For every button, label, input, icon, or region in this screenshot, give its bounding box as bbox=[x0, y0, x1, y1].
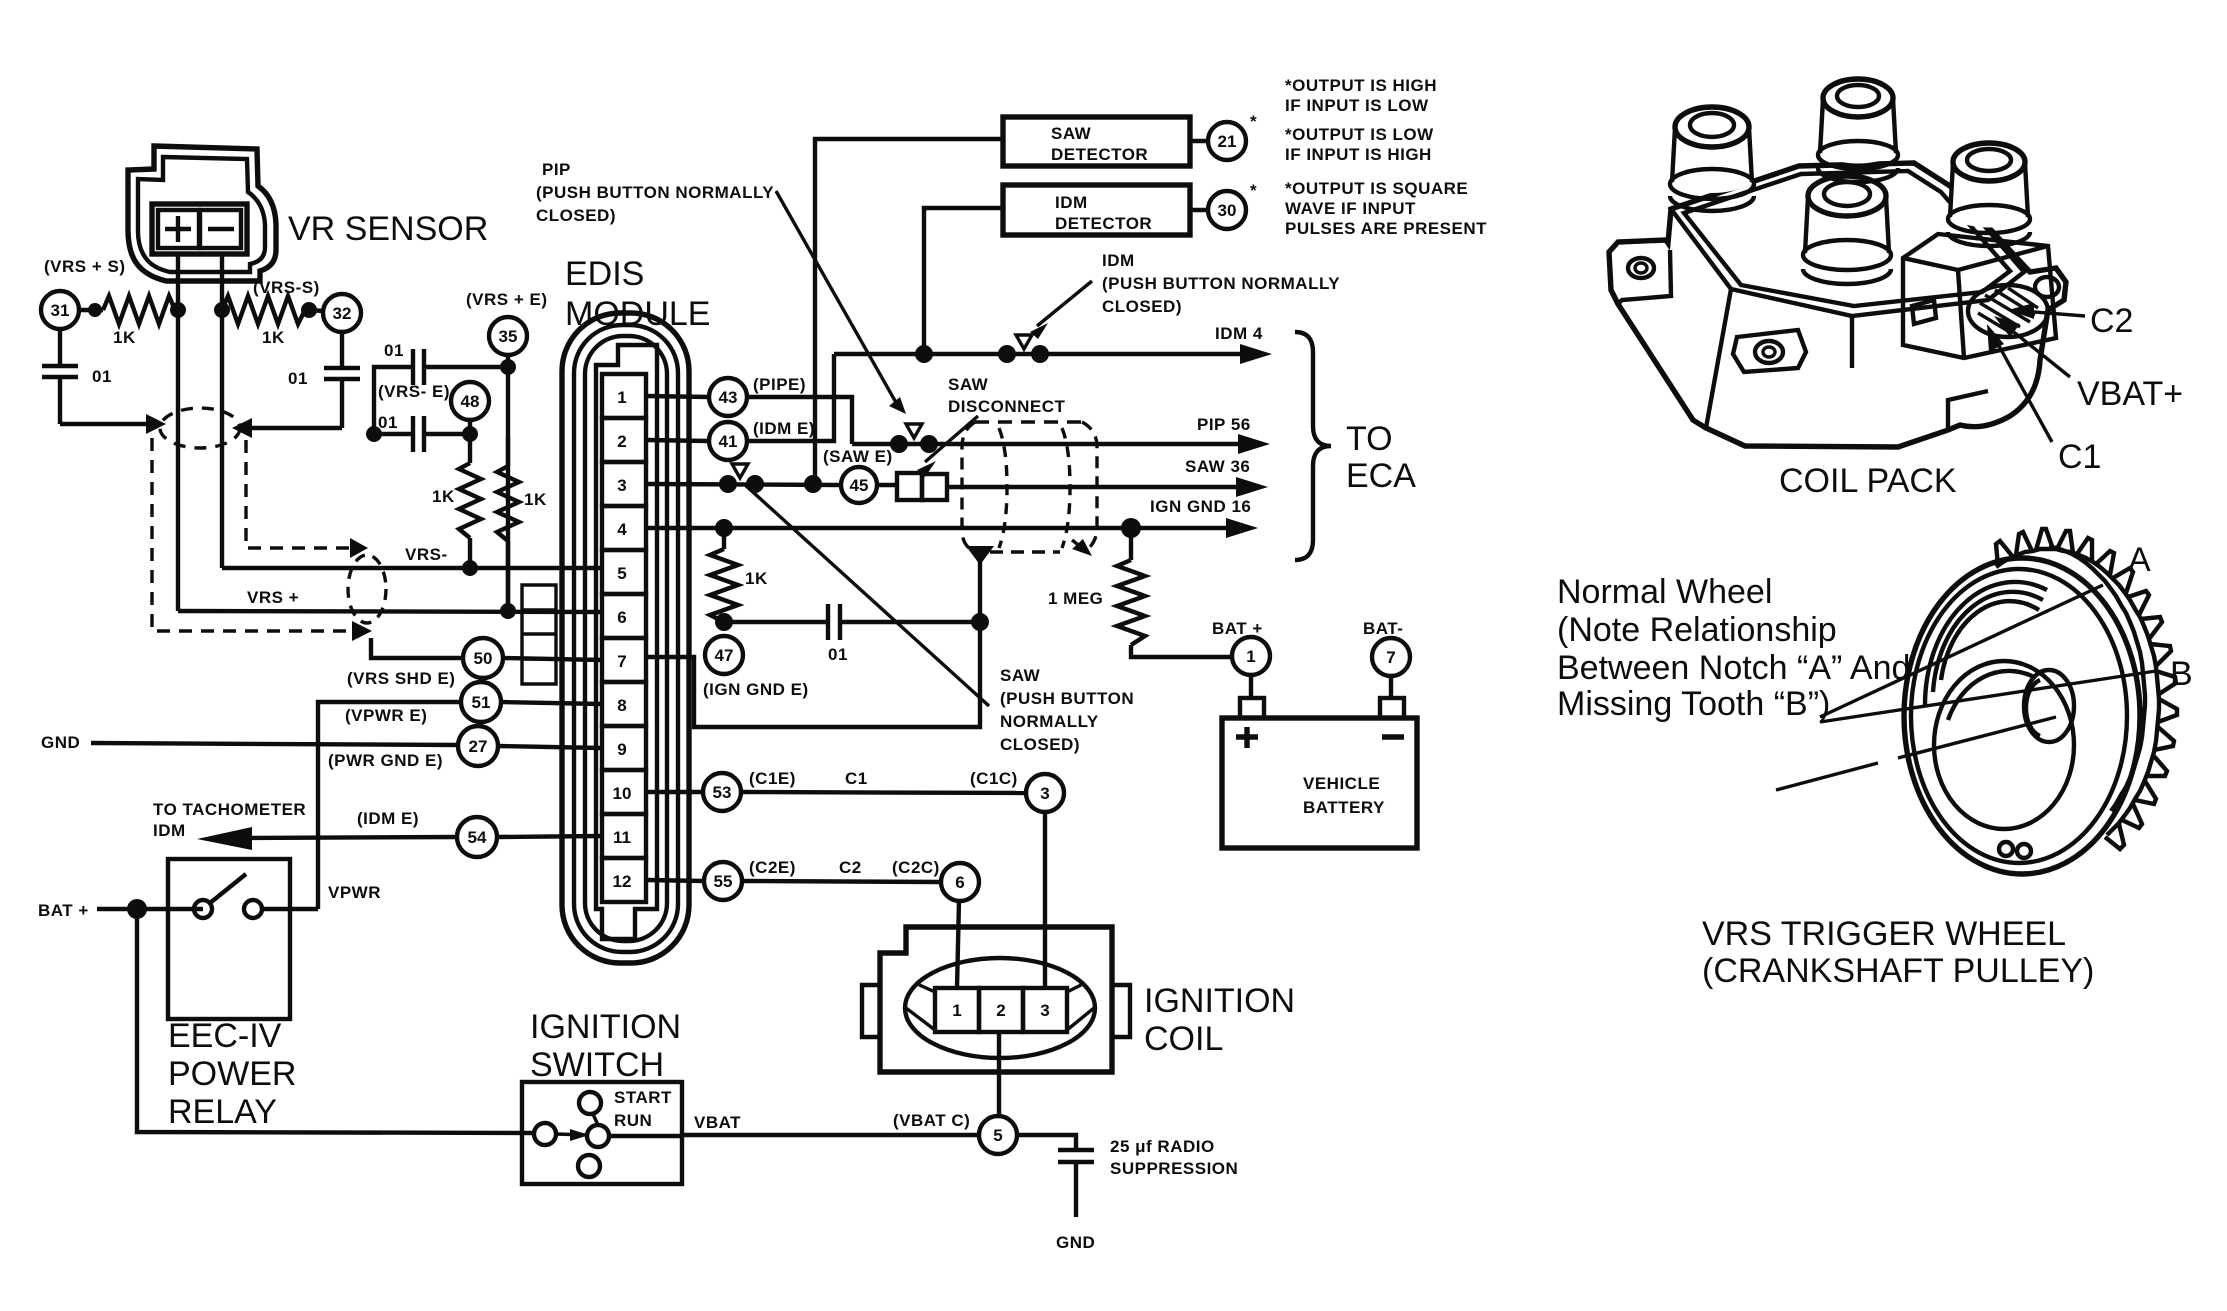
svg-text:1: 1 bbox=[1246, 647, 1255, 666]
svg-text:PULSES ARE PRESENT: PULSES ARE PRESENT bbox=[1285, 219, 1487, 238]
switch contact START bbox=[579, 1092, 601, 1114]
svg-text:1 MEG: 1 MEG bbox=[1048, 589, 1103, 608]
pushbutton IDM symbol bbox=[1016, 335, 1032, 349]
svg-text:(IGN GND E): (IGN GND E) bbox=[703, 680, 809, 699]
junction dots pin3 bbox=[719, 475, 737, 493]
junction dot VRS+ lead bbox=[170, 302, 186, 318]
svg-text:DISCONNECT: DISCONNECT bbox=[948, 397, 1066, 416]
wire node6 down to coil 1 bbox=[957, 901, 959, 988]
wire pin2 to node 41 bbox=[646, 440, 709, 441]
svg-text:32: 32 bbox=[333, 304, 352, 323]
svg-text:SAW: SAW bbox=[1051, 124, 1092, 143]
svg-text:MODULE: MODULE bbox=[565, 295, 710, 333]
svg-text:1K: 1K bbox=[262, 328, 285, 347]
wire from C1 to shield arrow bbox=[60, 422, 146, 426]
pin 5 bbox=[602, 550, 646, 594]
svg-text:CLOSED): CLOSED) bbox=[1102, 297, 1182, 316]
junction dot BAT+ bbox=[127, 899, 147, 919]
IDM detector box bbox=[1003, 185, 1190, 235]
svg-text:27: 27 bbox=[469, 737, 488, 756]
wire tachometer arrow bbox=[230, 837, 457, 838]
svg-text:A: A bbox=[2128, 541, 2151, 579]
wire node51 to pin8 bbox=[501, 702, 602, 704]
base front edges bbox=[1706, 289, 1988, 430]
shield drain arrow into cable bbox=[966, 546, 994, 565]
twisted pair dashed ellipse at sensor leads bbox=[160, 408, 240, 448]
tower 4 top bbox=[1953, 143, 2025, 181]
junction dot node47 bbox=[715, 613, 733, 631]
svg-text:25 μf RADIO: 25 μf RADIO bbox=[1110, 1137, 1215, 1156]
svg-text:TO TACHOMETER: TO TACHOMETER bbox=[153, 800, 306, 819]
svg-text:IF INPUT IS LOW: IF INPUT IS LOW bbox=[1285, 96, 1429, 115]
shield arrow right bbox=[232, 418, 252, 438]
resistor R1 1K bbox=[103, 296, 178, 324]
svg-text:(VRS- E): (VRS- E) bbox=[378, 382, 450, 401]
svg-text:1K: 1K bbox=[432, 487, 455, 506]
svg-text:C1: C1 bbox=[2058, 438, 2101, 476]
resistor R3 1K vertical bbox=[468, 434, 472, 463]
svg-text:VRS-: VRS- bbox=[405, 545, 448, 564]
dashed shield drain line pair2 bbox=[246, 440, 352, 548]
node 41 bbox=[709, 422, 747, 460]
coil pack base casting silhouette bbox=[1609, 163, 2066, 447]
svg-text:(PUSH BUTTON NORMALLY: (PUSH BUTTON NORMALLY bbox=[1102, 274, 1340, 293]
coil terminal box 1 bbox=[935, 988, 979, 1032]
top plate outline bbox=[1671, 163, 2024, 316]
junction dot 1MEG bbox=[1121, 518, 1141, 538]
svg-text:BATTERY: BATTERY bbox=[1303, 798, 1385, 817]
svg-text:(CRANKSHAFT PULLEY): (CRANKSHAFT PULLEY) bbox=[1702, 952, 2094, 990]
svg-text:5: 5 bbox=[993, 1126, 1002, 1145]
wire VPWR vertical to node51 bbox=[318, 702, 461, 909]
svg-text:VRS TRIGGER WHEEL: VRS TRIGGER WHEEL bbox=[1702, 915, 2066, 953]
svg-text:IDM 4: IDM 4 bbox=[1215, 324, 1263, 343]
node 53 bbox=[703, 773, 741, 811]
svg-text:10: 10 bbox=[613, 784, 632, 803]
svg-text:55: 55 bbox=[714, 872, 733, 891]
node 31 bbox=[41, 291, 79, 329]
svg-text:(PUSH BUTTON: (PUSH BUTTON bbox=[1000, 689, 1134, 708]
leader IDM note to pushbutton bbox=[1037, 281, 1092, 326]
svg-text:WAVE IF INPUT: WAVE IF INPUT bbox=[1285, 199, 1416, 218]
svg-text:GND: GND bbox=[41, 733, 80, 752]
wire pin1 PIPE to node 43 bbox=[646, 396, 709, 397]
svg-text:C2: C2 bbox=[839, 858, 862, 877]
shield arrow left bbox=[146, 414, 166, 434]
leader PIP note to PIP pushbutton bbox=[776, 191, 898, 406]
svg-text:2: 2 bbox=[996, 1001, 1005, 1020]
hub inner bbox=[2026, 680, 2040, 736]
node 6 bbox=[941, 863, 979, 901]
wire pin12 to node55 bbox=[646, 880, 704, 881]
wire node54 to pin11 bbox=[497, 836, 602, 837]
pin 9 bbox=[602, 726, 646, 770]
coil terminal box 3 bbox=[1023, 988, 1067, 1032]
shield drain arrow pair1 bbox=[352, 621, 372, 641]
node 3 bbox=[1026, 774, 1064, 812]
svg-text:(VRS + S): (VRS + S) bbox=[44, 257, 126, 276]
svg-text:3: 3 bbox=[1040, 784, 1049, 803]
svg-text:*OUTPUT IS SQUARE: *OUTPUT IS SQUARE bbox=[1285, 179, 1468, 198]
relay contact right bbox=[244, 900, 262, 918]
wire node55 to node6 bbox=[742, 881, 941, 882]
svg-text:47: 47 bbox=[715, 646, 734, 665]
brace to ECA bbox=[1295, 332, 1331, 560]
svg-text:*: * bbox=[1250, 112, 1257, 131]
junction dot cap to drain bbox=[971, 613, 989, 631]
wire relay to VPWR bbox=[262, 907, 318, 911]
leader notch A bbox=[1820, 585, 2103, 717]
wire BAT+ to relay bbox=[97, 907, 203, 911]
switch contact left bbox=[534, 1123, 556, 1145]
node 51 bbox=[461, 682, 501, 722]
pushbutton PIP symbol bbox=[906, 424, 922, 438]
pin 4 bbox=[602, 506, 646, 550]
svg-text:VPWR: VPWR bbox=[328, 883, 381, 902]
wire node50 to pin7 bbox=[503, 658, 602, 660]
tower 2 top bbox=[1823, 79, 1893, 117]
svg-text:BAT +: BAT + bbox=[38, 901, 89, 920]
svg-text:(VRS-S): (VRS-S) bbox=[253, 278, 320, 297]
svg-text:7: 7 bbox=[1386, 648, 1395, 667]
wire IDM detector to IDM4 line bbox=[924, 208, 1003, 354]
dashed shield drain line pair1 bbox=[152, 438, 355, 631]
svg-text:ECA: ECA bbox=[1346, 457, 1416, 495]
VR sensor - terminal bbox=[200, 210, 241, 248]
tower 4 body bbox=[1949, 163, 2029, 228]
wire VRS- lead down from sensor bbox=[220, 254, 224, 568]
node 21 bbox=[1208, 122, 1246, 160]
svg-text:01: 01 bbox=[828, 645, 848, 664]
svg-text:VEHICLE: VEHICLE bbox=[1303, 774, 1380, 793]
svg-text:(C1C): (C1C) bbox=[970, 769, 1018, 788]
pin 7 bbox=[602, 638, 646, 682]
wire node31 to resistor bbox=[79, 308, 103, 312]
EDIS module pin cavity boundary bbox=[596, 345, 657, 939]
svg-text:1: 1 bbox=[952, 1001, 961, 1020]
leader SAW DISCONNECT bbox=[925, 416, 978, 462]
relay blade bbox=[210, 874, 246, 903]
svg-text:*: * bbox=[1250, 181, 1257, 200]
junction dot C4 left bbox=[366, 426, 382, 442]
svg-text:(VPWR E): (VPWR E) bbox=[345, 706, 427, 725]
svg-text:RELAY: RELAY bbox=[168, 1093, 277, 1131]
wire pin3 SAW line bbox=[646, 484, 840, 485]
relay contact left bbox=[194, 900, 212, 918]
node 48 bbox=[451, 382, 489, 420]
node 5 bbox=[979, 1116, 1017, 1154]
wire to node 32 bbox=[309, 310, 324, 311]
pulley disc outer rim bbox=[1904, 558, 2140, 874]
pin 11 bbox=[602, 814, 646, 858]
resistor R2 1K bbox=[222, 296, 309, 324]
wire VRS SHD E from shield to node 50 bbox=[371, 638, 464, 658]
junction dot node35 branch bbox=[500, 359, 516, 375]
wire SAW detector to node 21 bbox=[1190, 139, 1208, 143]
svg-text:IDM: IDM bbox=[1102, 251, 1135, 270]
coil ellipse spokes bbox=[906, 983, 1094, 1030]
VR sensor connector inner outline bbox=[138, 157, 265, 272]
svg-text:SAW: SAW bbox=[948, 375, 989, 394]
battery plus mark bbox=[1236, 727, 1258, 748]
wire VRS- to module pin5 bbox=[222, 566, 602, 570]
battery terminal posts bbox=[1251, 675, 1391, 698]
svg-text:1K: 1K bbox=[524, 490, 547, 509]
wire IDM E to IDM4 line bbox=[747, 354, 834, 441]
wire VRS+ lead down from sensor bbox=[176, 254, 180, 611]
svg-text:IGN GND 16: IGN GND 16 bbox=[1150, 497, 1251, 516]
switch blade lines bbox=[556, 1112, 598, 1135]
pulley disc inner rim line bbox=[1911, 569, 2127, 863]
wire VRS+ to module pin6 bbox=[178, 611, 602, 612]
svg-text:IDM: IDM bbox=[153, 821, 186, 840]
balance holes oo bbox=[1999, 842, 2013, 856]
junction dot pin4 bbox=[715, 519, 733, 537]
wire node3 down to coil 3 bbox=[1043, 812, 1047, 988]
svg-text:(Note Relationship: (Note Relationship bbox=[1557, 611, 1837, 649]
VR sensor + terminal bbox=[158, 210, 199, 248]
svg-text:IGNITION: IGNITION bbox=[530, 1008, 681, 1046]
svg-text:4: 4 bbox=[617, 520, 627, 539]
trigger wheel teeth ring bbox=[1996, 529, 2177, 849]
node 35 bbox=[489, 317, 527, 355]
svg-text:51: 51 bbox=[472, 693, 491, 712]
svg-text:GND: GND bbox=[1056, 1233, 1095, 1252]
svg-text:C2: C2 bbox=[2090, 302, 2133, 340]
base left ear edge bbox=[1618, 250, 1671, 304]
twisted pair dashed ellipse at VRS lines bbox=[348, 555, 386, 623]
svg-text:45: 45 bbox=[850, 476, 869, 495]
svg-text:SUPPRESSION: SUPPRESSION bbox=[1110, 1159, 1238, 1178]
svg-text:*OUTPUT IS LOW: *OUTPUT IS LOW bbox=[1285, 125, 1434, 144]
svg-text:EDIS: EDIS bbox=[565, 255, 644, 293]
front ear bbox=[1733, 330, 1806, 372]
wire node53 to node3 bbox=[741, 792, 1026, 793]
svg-text:7: 7 bbox=[617, 652, 626, 671]
svg-text:3: 3 bbox=[617, 476, 626, 495]
node 30 bbox=[1208, 191, 1246, 229]
top plate inner line bbox=[1684, 171, 2010, 306]
svg-text:Missing Tooth “B”): Missing Tooth “B”) bbox=[1557, 685, 1830, 723]
pulley front groove arcs bbox=[1925, 582, 2047, 705]
tower 1 body bbox=[1671, 128, 1753, 193]
svg-text:(C1E): (C1E) bbox=[749, 769, 796, 788]
svg-text:43: 43 bbox=[719, 388, 738, 407]
svg-text:1K: 1K bbox=[113, 328, 136, 347]
svg-text:01: 01 bbox=[288, 369, 308, 388]
connector opening bbox=[1968, 285, 2048, 337]
wire PIPE to PIP56 line bbox=[747, 397, 852, 444]
SAW disconnect connector bbox=[897, 473, 922, 500]
svg-text:DETECTOR: DETECTOR bbox=[1051, 145, 1148, 164]
svg-text:01: 01 bbox=[384, 341, 404, 360]
svg-text:53: 53 bbox=[713, 783, 732, 802]
base left ear hole bbox=[1628, 258, 1654, 278]
wire pin10 to node53 bbox=[646, 790, 703, 794]
capacitor C2 .01 under node 32 bbox=[324, 332, 360, 428]
BAT+ node 1 bbox=[1232, 637, 1270, 675]
EDIS module inner outline bbox=[585, 336, 667, 941]
svg-text:IDM: IDM bbox=[1055, 193, 1088, 212]
junction dot VRS+ with R4 bbox=[500, 603, 516, 619]
cable shield dashed oval around ECA lines bbox=[975, 420, 1082, 423]
wire from C2 to shield arrow bbox=[252, 426, 342, 430]
svg-text:6: 6 bbox=[617, 608, 626, 627]
svg-text:SAW: SAW bbox=[1000, 666, 1041, 685]
BAT- node 7 bbox=[1372, 638, 1410, 676]
shield drain arrow pair2 bbox=[350, 538, 368, 558]
svg-text:(VRS + E): (VRS + E) bbox=[466, 290, 548, 309]
svg-text:COIL PACK: COIL PACK bbox=[1779, 462, 1957, 500]
svg-text:(C2E): (C2E) bbox=[749, 858, 796, 877]
node 45 bbox=[841, 467, 877, 503]
svg-text:C1: C1 bbox=[845, 769, 868, 788]
svg-text:VR SENSOR: VR SENSOR bbox=[288, 210, 488, 248]
node 32 bbox=[323, 294, 361, 332]
connector slot bbox=[1912, 300, 1936, 324]
svg-text:01: 01 bbox=[92, 367, 112, 386]
wire node5 to radio cap bbox=[1017, 1135, 1094, 1217]
right ear hole bbox=[2035, 277, 2059, 297]
svg-text:CLOSED): CLOSED) bbox=[1000, 735, 1080, 754]
wire PIP 56 line to ECA bbox=[852, 442, 1256, 446]
wire pin4 IGN GND line to ECA bbox=[646, 526, 1244, 530]
node 54 bbox=[457, 817, 497, 857]
svg-text:PIP 56: PIP 56 bbox=[1197, 415, 1251, 434]
leader SAW note from pin3 bbox=[744, 484, 989, 706]
junction dot C4 right bbox=[462, 426, 478, 442]
dashed arrow at shield oval bbox=[1072, 540, 1086, 551]
pin 2 bbox=[602, 418, 646, 462]
ignition coil right tab bbox=[1112, 985, 1130, 1037]
svg-text:(C2C): (C2C) bbox=[892, 858, 940, 877]
leader tooth B bbox=[1820, 671, 2156, 722]
node 27 bbox=[458, 726, 498, 766]
VR sensor connector body bbox=[128, 146, 276, 281]
svg-text:1: 1 bbox=[617, 388, 626, 407]
EDIS module middle outline bbox=[574, 325, 678, 952]
wire BAT+ down to VBAT line bbox=[137, 909, 536, 1133]
svg-text:B: B bbox=[2170, 655, 2193, 693]
svg-text:31: 31 bbox=[51, 301, 70, 320]
connector block bbox=[1903, 234, 2056, 358]
pushbutton SAW symbol at pin3 bbox=[732, 464, 748, 478]
trigger wheel tooth root arc bbox=[1996, 549, 2159, 835]
svg-text:(IDM E): (IDM E) bbox=[753, 419, 815, 438]
junction dot at resistor R2 right bbox=[301, 302, 317, 318]
ignition coil left tab bbox=[862, 985, 880, 1037]
svg-text:Between Notch “A” And: Between Notch “A” And bbox=[1557, 649, 1910, 687]
VR sensor terminal housing bbox=[152, 204, 247, 254]
svg-text:NORMALLY: NORMALLY bbox=[1000, 712, 1099, 731]
capacitor C3 .01 horizontal top bbox=[374, 349, 508, 434]
wire VBAT from switch to coil bbox=[609, 1135, 979, 1136]
svg-text:BAT-: BAT- bbox=[1363, 619, 1403, 638]
pin 3 bbox=[602, 462, 646, 506]
svg-text:COIL: COIL bbox=[1144, 1020, 1223, 1058]
svg-text:POWER: POWER bbox=[168, 1055, 296, 1093]
trigger wheel ring back edge bbox=[2049, 547, 2145, 811]
tower 3 top bbox=[1808, 176, 1886, 216]
svg-text:35: 35 bbox=[499, 327, 518, 346]
wire SAW 36 line to ECA bbox=[947, 485, 1254, 489]
svg-text:30: 30 bbox=[1218, 201, 1237, 220]
svg-text:21: 21 bbox=[1218, 132, 1237, 151]
wire node45 to disconnect bbox=[877, 483, 897, 487]
svg-text:54: 54 bbox=[468, 828, 487, 847]
svg-text:VBAT+: VBAT+ bbox=[2077, 375, 2183, 413]
tower 1 top bbox=[1675, 107, 1749, 147]
junction dots PIP pushbutton bbox=[890, 435, 908, 453]
switch contact RUN bbox=[587, 1125, 609, 1147]
tower 3 body bbox=[1804, 197, 1890, 264]
wire IDM 4 line to ECA bbox=[834, 352, 1258, 356]
svg-text:12: 12 bbox=[613, 872, 632, 891]
svg-text:EEC-IV: EEC-IV bbox=[168, 1017, 282, 1055]
pin 1 bbox=[602, 374, 646, 418]
svg-text:SAW 36: SAW 36 bbox=[1185, 457, 1250, 476]
node 43 bbox=[709, 378, 747, 416]
svg-text:48: 48 bbox=[461, 392, 480, 411]
pin 6 bbox=[602, 594, 646, 638]
node 50 bbox=[463, 638, 503, 678]
wire pin7 shield drain bbox=[646, 562, 980, 727]
svg-text:Normal Wheel: Normal Wheel bbox=[1557, 573, 1772, 611]
svg-text:(VRS SHD E): (VRS SHD E) bbox=[347, 669, 455, 688]
junction dot IDM detector drop bbox=[915, 345, 933, 363]
svg-text:(PWR GND E): (PWR GND E) bbox=[328, 751, 443, 770]
switch contact OFF bbox=[578, 1155, 600, 1177]
battery minus mark bbox=[1382, 734, 1404, 739]
junction dot SAW detector drop bbox=[804, 475, 822, 493]
svg-text:CLOSED): CLOSED) bbox=[536, 206, 616, 225]
centre line through hub bbox=[1776, 717, 2056, 790]
junction dot VRS- with R3 bbox=[462, 560, 478, 576]
svg-text:(SAW E): (SAW E) bbox=[823, 447, 893, 466]
svg-text:1K: 1K bbox=[745, 569, 768, 588]
pin 10 bbox=[602, 770, 646, 814]
svg-text:BAT +: BAT + bbox=[1212, 619, 1263, 638]
wire SAW detector to pin3 line bbox=[815, 139, 1003, 484]
svg-text:(VBAT C): (VBAT C) bbox=[893, 1111, 970, 1130]
vehicle battery box bbox=[1222, 718, 1417, 848]
hub ellipse bbox=[2024, 670, 2074, 742]
module left bracket comb bbox=[522, 585, 556, 684]
svg-text:VRS +: VRS + bbox=[247, 588, 299, 607]
capacitor C1 .01 under node 31 bbox=[42, 329, 78, 424]
wire node48 to C4 bbox=[468, 420, 472, 434]
svg-text:3: 3 bbox=[1040, 1001, 1049, 1020]
wire node5 up to coil pin2 bbox=[997, 1032, 1001, 1116]
svg-text:50: 50 bbox=[474, 649, 493, 668]
svg-text:(IDM E): (IDM E) bbox=[357, 809, 419, 828]
EEC-IV power relay box bbox=[168, 859, 290, 1019]
ignition coil ellipse bbox=[905, 958, 1095, 1058]
SAW detector box bbox=[1003, 117, 1190, 166]
resistor R5 1K vertical under pin4 line bbox=[722, 528, 726, 549]
svg-text:IGNITION: IGNITION bbox=[1144, 982, 1295, 1020]
svg-text:*OUTPUT IS HIGH: *OUTPUT IS HIGH bbox=[1285, 76, 1437, 95]
junction dot VRS- lead bbox=[214, 302, 230, 318]
svg-text:9: 9 bbox=[617, 740, 626, 759]
capacitor C4 .01 horizontal lower bbox=[374, 416, 470, 452]
svg-text:RUN: RUN bbox=[614, 1111, 652, 1130]
wire 1 MEG resistor bbox=[1129, 528, 1133, 560]
svg-text:6: 6 bbox=[955, 873, 964, 892]
wire node27 to pin9 bbox=[498, 746, 602, 748]
wire node35 down bbox=[506, 355, 510, 607]
node 55 bbox=[704, 862, 742, 900]
